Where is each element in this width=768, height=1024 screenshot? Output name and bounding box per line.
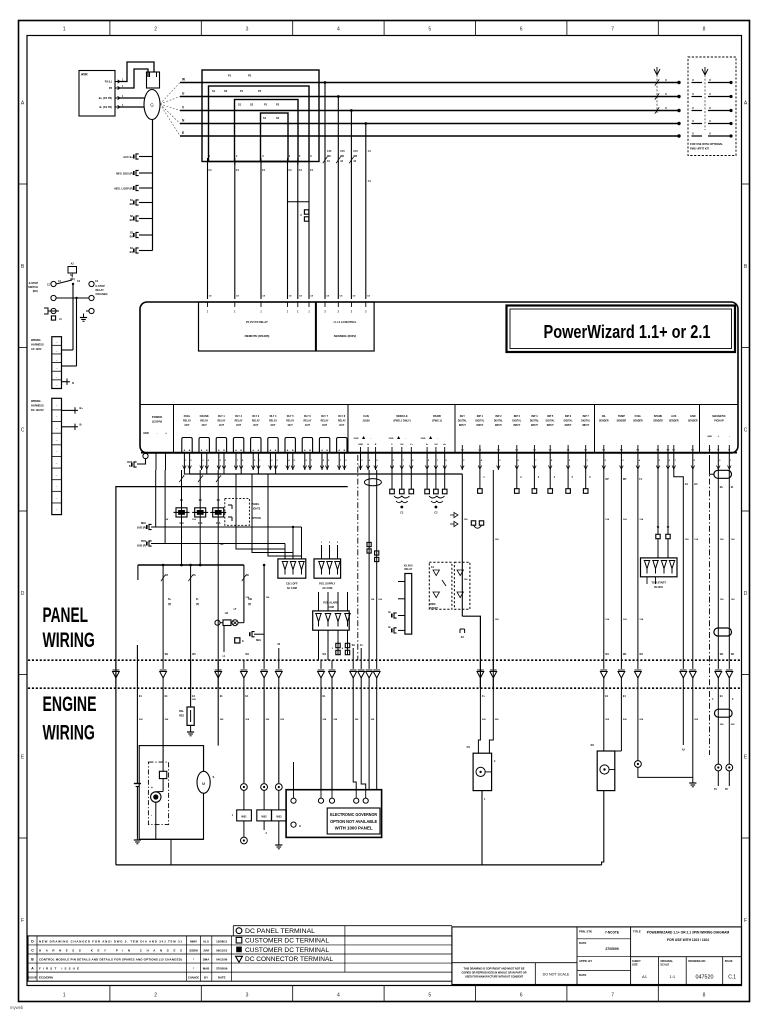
svg-text:FUEL: FUEL [635, 415, 642, 418]
svg-text:OUT: OUT [322, 424, 328, 427]
wire left drop 2 [164, 470, 166, 544]
inline plug on CT6 wire [304, 210, 308, 214]
svg-text:B: B [31, 957, 34, 961]
svg-text:F2: F2 [199, 499, 203, 502]
svg-text:A2: A2 [71, 263, 75, 266]
svg-text:OUT: OUT [270, 424, 276, 427]
svg-text:S2: S2 [250, 103, 254, 107]
svg-text:G0: G0 [694, 483, 698, 486]
svg-text:208: 208 [220, 719, 224, 721]
svg-text:C: C [21, 427, 25, 433]
svg-text:C1: C1 [310, 169, 314, 172]
svg-text:FIRST ISSUE: FIRST ISSUE [39, 966, 79, 970]
svg-text:RELAY: RELAY [286, 420, 294, 423]
svg-text:C8: C8 [299, 296, 303, 298]
svg-text:A-: A- [426, 443, 429, 446]
controller group dividers [173, 405, 175, 454]
fuse F2 [195, 508, 206, 517]
svg-text:208: 208 [731, 724, 735, 726]
svg-text:FL: FL [639, 478, 642, 481]
svg-text:*: * [193, 957, 195, 961]
svg-text:RES: RES [179, 715, 184, 718]
svg-text:N: N [182, 119, 185, 123]
svg-text:INPUT: INPUT [459, 425, 466, 427]
phase wire V [180, 110, 679, 112]
svg-text:W1: W1 [720, 653, 724, 656]
accessory stub ACC B+ [139, 156, 153, 158]
svg-text:myweb: myweb [10, 1005, 24, 1010]
mpu pill engine [715, 709, 733, 717]
svg-text:D: D [21, 591, 25, 597]
engine block ground wire [170, 839, 172, 865]
svg-text:B+: B+ [168, 598, 172, 601]
svg-text:P1: P1 [714, 789, 718, 791]
svg-text:DIGITAL: DIGITAL [494, 420, 504, 423]
svg-text:124: 124 [623, 618, 627, 621]
svg-text:B: B [275, 450, 277, 452]
svg-text:INPUT: INPUT [531, 425, 538, 427]
oil pressure sender [241, 784, 248, 791]
svg-text:K5 AUX: K5 AUX [404, 565, 413, 568]
svg-text:RELAY: RELAY [217, 420, 225, 423]
svg-text:208: 208 [266, 719, 270, 721]
svg-text:NEW DRAWING CHANGED FOR ANSI D: NEW DRAWING CHANGED FOR ANSI DWG 5. TEM … [39, 939, 182, 943]
svg-text:~: ~ [56, 473, 58, 477]
svg-text:A+: A+ [443, 443, 447, 446]
svg-text:C8: C8 [353, 296, 357, 298]
wire sender drop 638 [637, 470, 639, 660]
svg-text:ALA: ALA [203, 939, 210, 943]
svg-text:INPUT: INPUT [495, 425, 502, 427]
options Y symbol [702, 67, 708, 75]
svg-text:7: 7 [611, 27, 614, 33]
svg-text:124: 124 [378, 598, 382, 601]
svg-text:5: 5 [294, 460, 296, 462]
svg-text:INP 3: INP 3 [514, 415, 521, 418]
svg-text:PowerWizard 1.1+ or 2.1: PowerWizard 1.1+ or 2.1 [544, 322, 711, 342]
sender wires to plugs [243, 791, 245, 810]
svg-text:U: U [665, 92, 667, 96]
VR dashed box 2 [454, 562, 470, 609]
wire break marks near harness [655, 79, 659, 85]
svg-text:S1: S1 [263, 116, 267, 120]
svg-text:WT: WT [623, 478, 627, 481]
svg-text:G1: G1 [685, 483, 689, 486]
svg-text:W: W [182, 78, 185, 82]
svg-text:GND: GND [143, 432, 149, 435]
svg-text:C15: C15 [327, 150, 332, 153]
svg-text:DRAWING NO: DRAWING NO [688, 959, 705, 963]
svg-text:E1: E1 [720, 695, 724, 698]
svg-text:~: ~ [56, 403, 58, 407]
sensing wire labels with break [323, 157, 327, 163]
svg-text:208: 208 [280, 719, 284, 721]
svg-text:S2: S2 [130, 214, 134, 218]
panel-engine separator 2 [28, 687, 740, 689]
sender plug tails [243, 821, 245, 837]
controller outline [140, 302, 738, 453]
svg-text:COIL/NEG: COIL/NEG [96, 293, 108, 296]
svg-text:INPUT: INPUT [513, 425, 520, 427]
svg-text:~: ~ [56, 349, 58, 353]
svg-text:BAL: BAL [179, 710, 184, 713]
svg-text:A: A [287, 449, 289, 452]
svg-text:C: C [300, 214, 302, 217]
svg-text:LT: LT [234, 608, 237, 611]
svg-text:GND: GND [690, 415, 696, 418]
svg-text:~: ~ [56, 384, 58, 388]
svg-text:AC 120V: AC 120V [31, 347, 42, 351]
bulkhead connector symbols [113, 672, 120, 678]
CAN twisted pair 1 [394, 496, 410, 498]
governor terminals [293, 790, 295, 798]
svg-text:C8: C8 [326, 296, 330, 298]
svg-text:W1: W1 [323, 653, 327, 656]
wire break labels under pins [179, 476, 183, 482]
svg-text:124: 124 [495, 618, 499, 621]
svg-text:4: 4 [639, 459, 641, 462]
svg-text:M: M [202, 781, 205, 786]
svg-text:124: 124 [639, 518, 643, 521]
svg-text:P2: P2 [667, 450, 670, 452]
svg-text:CUSTOMER DC TERMINAL: CUSTOMER DC TERMINAL [245, 938, 329, 945]
svg-text:RELAY: RELAY [252, 420, 260, 423]
svg-text:RLY 3: RLY 3 [252, 415, 259, 418]
svg-text:RELAY: RELAY [269, 420, 277, 423]
engine sensor feeds [243, 688, 245, 783]
svg-text:2: 2 [338, 311, 340, 314]
svg-text:124: 124 [266, 596, 270, 599]
svg-text:F1: F1 [180, 499, 184, 502]
svg-text:DATE: DATE [579, 973, 587, 977]
svg-text:~: ~ [56, 484, 58, 488]
terminal block TB1 [278, 559, 306, 578]
svg-text:2: 2 [351, 311, 353, 314]
svg-text:3: 3 [202, 460, 204, 462]
svg-text:INPUT: INPUT [547, 425, 554, 427]
svg-text:A: A [744, 100, 748, 106]
svg-text:OUT: OUT [305, 424, 311, 427]
svg-text:C.1: C.1 [728, 975, 736, 981]
svg-text:A2: A2 [682, 749, 686, 752]
input stub squares [479, 470, 481, 489]
estop switch blade [56, 280, 72, 284]
svg-text:5: 5 [428, 993, 431, 999]
svg-text:THIS DRAWING IS COPYRIGHT AND: THIS DRAWING IS COPYRIGHT AND MUST NOT B… [463, 968, 524, 971]
svg-text:208: 208 [139, 719, 143, 721]
svg-text:5: 5 [659, 460, 661, 462]
harness Y symbol [654, 67, 660, 75]
svg-text:OUT: OUT [253, 424, 259, 427]
svg-text:W01: W01 [241, 816, 247, 819]
CN2 stub 2 [62, 426, 76, 428]
svg-text:C2: C2 [77, 280, 81, 283]
svg-text:-: - [157, 431, 158, 435]
shield wires down [352, 648, 354, 660]
svg-text:B: B [21, 264, 25, 270]
svg-text:8: 8 [242, 460, 244, 462]
svg-text:B+ (XX P6): B+ (XX P6) [99, 96, 112, 100]
svg-text:DATE: DATE [218, 976, 226, 980]
svg-text:*: * [193, 966, 195, 970]
svg-text:V: V [182, 106, 185, 110]
svg-text:2: 2 [605, 460, 607, 462]
svg-text:208: 208 [495, 719, 499, 721]
neg bus stub 2 [149, 541, 152, 546]
svg-text:16A: 16A [216, 522, 221, 525]
svg-text:9: 9 [428, 460, 430, 462]
svg-text:(NC): (NC) [33, 290, 38, 293]
svg-text:C8: C8 [236, 296, 240, 298]
svg-text:S2: S2 [224, 89, 228, 93]
CT box 3 [235, 100, 299, 162]
svg-text:2: 2 [154, 27, 157, 33]
svg-text:ENGINE: ENGINE [43, 693, 97, 716]
svg-text:SH: SH [434, 444, 437, 446]
svg-text:124: 124 [623, 518, 627, 521]
svg-text:SS: SS [591, 743, 595, 747]
aux relay box K5 [405, 574, 412, 635]
svg-text:04/11/09: 04/11/09 [216, 957, 227, 961]
svg-text:124: 124 [464, 578, 468, 581]
svg-text:-: - [438, 436, 439, 440]
svg-text:5: 5 [220, 460, 222, 462]
svg-text:CAN: CAN [363, 414, 369, 418]
fuel solenoid feeds [478, 688, 480, 753]
svg-text:U: U [692, 120, 694, 123]
mpu inline pill bottom [714, 628, 732, 636]
mpu wires top [717, 470, 719, 660]
lamp drop wire [223, 626, 225, 653]
wire CT4 down to comms module [287, 162, 289, 300]
start solenoid feeds [603, 688, 605, 751]
svg-text:9: 9 [719, 460, 721, 462]
svg-text:OUT: OUT [288, 424, 294, 427]
svg-text:5: 5 [299, 155, 301, 158]
power group bracket [137, 459, 146, 464]
svg-text:NEG. LOOP (P): NEG. LOOP (P) [114, 187, 133, 191]
svg-text:RELAY: RELAY [235, 420, 243, 423]
svg-text:208: 208 [720, 724, 724, 726]
CN2 stub 1 [62, 409, 76, 411]
accessory stub NEG BOS [139, 172, 153, 174]
svg-text:B-: B- [80, 423, 83, 427]
sender plug W03 [272, 810, 287, 821]
svg-text:A: A [31, 966, 34, 970]
TB3 top feeds [318, 592, 320, 611]
svg-text:W1: W1 [245, 653, 249, 656]
svg-text:FS: FS [467, 745, 471, 749]
svg-text:FOR USE WITH 1103 / 1104: FOR USE WITH 1103 / 1104 [667, 938, 709, 942]
svg-text:1: 1 [340, 460, 342, 462]
svg-text:208: 208 [623, 719, 627, 721]
svg-text:RLY 7: RLY 7 [321, 415, 328, 418]
svg-text:DIGITAL: DIGITAL [564, 420, 574, 423]
svg-text:5: 5 [499, 460, 501, 462]
group 3 pins [360, 447, 362, 453]
sender plug W02 [257, 810, 272, 821]
svg-text:C: C [31, 948, 34, 952]
svg-text:6: 6 [306, 460, 308, 462]
svg-text:PANEL: PANEL [43, 604, 89, 627]
svg-text:GND: GND [389, 438, 394, 440]
svg-text:(P): (P) [168, 603, 171, 606]
svg-text:E-STOP: E-STOP [29, 282, 39, 285]
svg-text:1: 1 [308, 311, 310, 314]
engine drop battery positive [136, 688, 138, 781]
svg-text:124: 124 [639, 618, 643, 621]
svg-text:W8: W8 [353, 155, 357, 158]
TOR block feed squares [656, 534, 660, 538]
inline plug pair 2 [345, 643, 349, 647]
svg-text:8: 8 [703, 993, 706, 999]
svg-text:SENDER: SENDER [617, 421, 627, 423]
svg-text:S2: S2 [276, 116, 280, 120]
starter feed [203, 746, 205, 772]
controller bottom edge emphasis [141, 452, 737, 454]
svg-text:C1: C1 [299, 169, 303, 172]
CT box outer [202, 70, 319, 162]
svg-text:~: ~ [56, 366, 58, 370]
svg-text:124: 124 [605, 618, 609, 621]
svg-text:WITH 1000 PANEL: WITH 1000 PANEL [335, 826, 373, 831]
svg-text:C1: C1 [236, 169, 240, 172]
svg-text:PICKUP: PICKUP [714, 420, 724, 423]
svg-text:RLY 6: RLY 6 [304, 415, 311, 418]
svg-text:INPUT: INPUT [476, 425, 483, 427]
svg-text:S: S [213, 775, 215, 779]
svg-text:4: 4 [289, 155, 291, 158]
svg-text:C8: C8 [310, 296, 314, 298]
svg-text:09/11/10: 09/11/10 [216, 948, 227, 952]
svg-text:SENDER: SENDER [599, 421, 609, 423]
svg-text:8: 8 [412, 460, 414, 462]
svg-text:GND: GND [358, 444, 363, 446]
svg-text:C: C [744, 427, 748, 433]
svg-text:-: - [151, 813, 152, 817]
svg-text:E-STOP: E-STOP [96, 285, 106, 288]
svg-text:C8: C8 [209, 296, 213, 298]
svg-text:F: F [21, 918, 24, 924]
wire CN1 pin4 to estop [62, 365, 77, 367]
svg-text:SENDER: SENDER [669, 421, 679, 423]
svg-text:E1: E1 [220, 695, 224, 698]
small relay box K3 [235, 638, 240, 643]
svg-text:B2: B2 [130, 218, 134, 222]
svg-text:KEY: KEY [460, 415, 465, 418]
estop row2 wire [56, 297, 89, 299]
terminal block TB2 [314, 559, 341, 578]
svg-text:M: M [709, 450, 711, 452]
svg-text:DATE: DATE [579, 941, 587, 945]
svg-text:7: 7 [675, 460, 677, 462]
svg-text:1: 1 [587, 460, 589, 462]
svg-text:SENDER: SENDER [653, 421, 663, 423]
svg-text:U: U [692, 107, 694, 110]
phase wire W [180, 82, 679, 84]
wire CT3 down to comms module [260, 162, 262, 300]
svg-text:124: 124 [720, 538, 724, 541]
aux plug pair [471, 521, 475, 525]
svg-text:AVR: AVR [81, 73, 88, 77]
svg-text:15/08/11: 15/08/11 [216, 939, 227, 943]
svg-text:PRN. STK: PRN. STK [579, 930, 592, 934]
comms module box RS485 [199, 302, 316, 351]
phase wire B- [180, 135, 679, 137]
svg-text:(PW2.1 ONLY): (PW2.1 ONLY) [393, 419, 410, 423]
fuel solenoid valve [473, 753, 492, 790]
AVR box [79, 71, 115, 117]
svg-text:DIGITAL: DIGITAL [512, 420, 522, 423]
wire generator bottom to accessory stub column [152, 120, 154, 251]
sender plug W01 [237, 810, 252, 821]
svg-text:WIRING: WIRING [31, 399, 41, 403]
svg-text:~: ~ [56, 426, 58, 430]
svg-text:3: 3 [622, 460, 624, 462]
svg-text:F: F [744, 918, 747, 924]
K5 pin brackets [394, 613, 397, 618]
svg-text:4: 4 [342, 647, 344, 650]
svg-text:CONTROL MODULE PIN DETAILS AND: CONTROL MODULE PIN DETAILS AND DETAILS F… [39, 957, 182, 961]
svg-text:C2: C2 [434, 512, 438, 515]
svg-text:P1 P2 P3: P1 P2 P3 RELAY [246, 320, 268, 324]
svg-text:208: 208 [482, 719, 486, 721]
svg-text:RELAY: RELAY [404, 568, 412, 571]
svg-text:E1: E1 [623, 695, 627, 698]
svg-text:TEMP: TEMP [618, 415, 625, 418]
svg-text:2: 2 [324, 311, 326, 314]
wire CT1 down to comms module [207, 162, 209, 300]
phase wire end dots [677, 81, 680, 84]
aux engine stub [682, 688, 684, 745]
svg-text:27/05/09: 27/05/09 [216, 966, 228, 970]
svg-text:(P): (P) [248, 603, 251, 606]
svg-text:DC CONNECTOR TERMINAL: DC CONNECTOR TERMINAL [245, 956, 333, 963]
svg-text:WIRING: WIRING [31, 338, 41, 342]
panel option dashed box [225, 498, 250, 525]
svg-text:4: 4 [554, 476, 556, 479]
svg-text:K: K [242, 640, 244, 643]
svg-text:REM: REM [430, 603, 435, 606]
svg-text:E: E [744, 754, 748, 760]
svg-text:U: U [709, 93, 711, 96]
svg-text:C15: C15 [353, 150, 358, 153]
svg-text:1: 1 [483, 477, 485, 479]
svg-text:J1: J1 [59, 318, 62, 321]
svg-text:~: ~ [56, 496, 58, 500]
accessory stub S4 [139, 250, 153, 252]
wire AVR pin3 to generator [120, 97, 145, 99]
svg-text:OUT: OUT [219, 424, 225, 427]
wire jog 673-683 [674, 470, 684, 660]
svg-text:S1: S1 [212, 89, 216, 93]
svg-text:M+: M+ [720, 486, 724, 489]
svg-text:2: 2 [329, 542, 331, 544]
magnetic pickup sensors [715, 764, 722, 771]
svg-text:CRANK: CRANK [200, 415, 209, 418]
svg-text:A: A [201, 449, 203, 452]
svg-text:1: 1 [209, 155, 211, 158]
svg-text:208: 208 [694, 719, 698, 721]
svg-text:GND: GND [707, 436, 712, 438]
svg-text:RLY 1: RLY 1 [218, 415, 225, 418]
accessory stub S2 [139, 218, 153, 220]
svg-text:DMA: DMA [203, 957, 210, 961]
svg-text:1: 1 [260, 311, 262, 314]
wire drop 692 [692, 470, 694, 660]
svg-text:RELAY: RELAY [200, 420, 208, 423]
svg-text:OUT: OUT [236, 424, 242, 427]
